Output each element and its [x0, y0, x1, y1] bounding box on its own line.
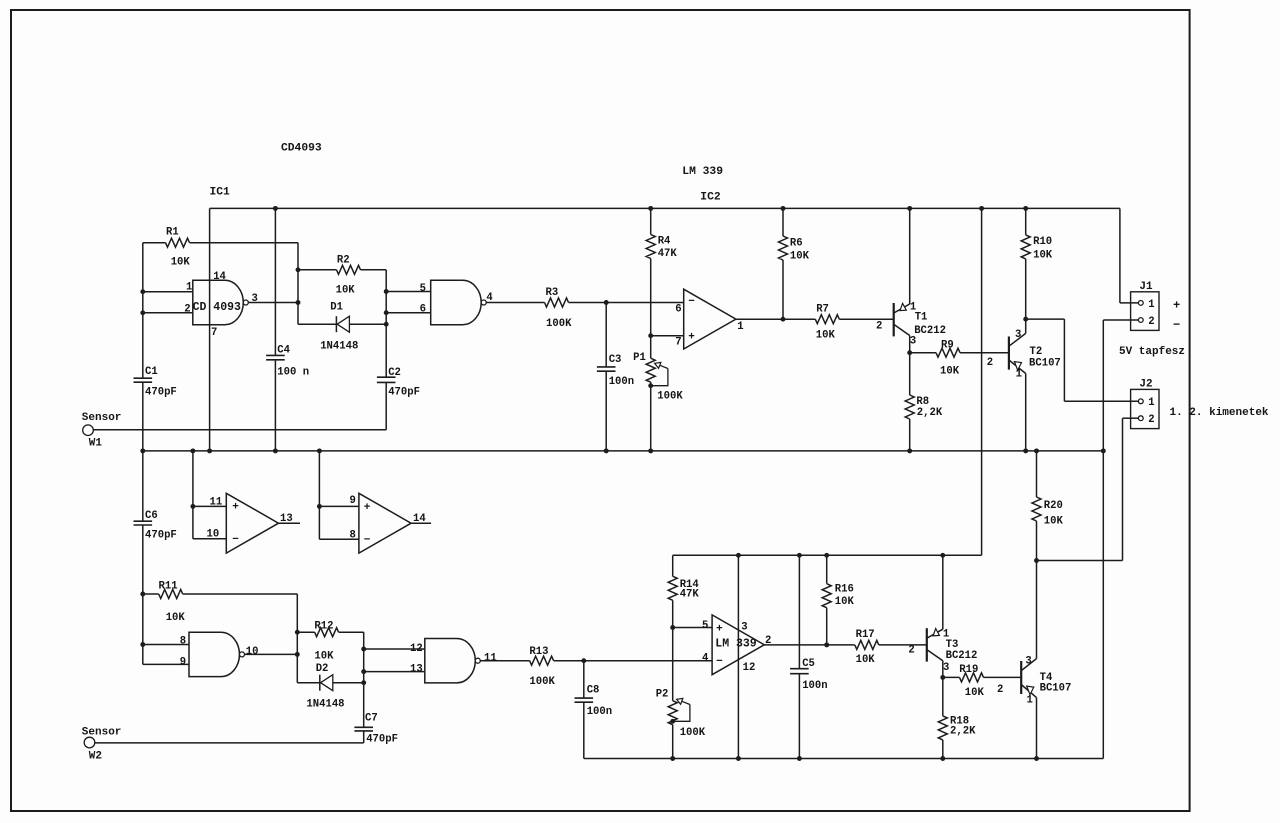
svg-text:10K: 10K	[1033, 249, 1053, 261]
svg-text:R4: R4	[658, 236, 671, 248]
svg-text:2,2K: 2,2K	[950, 726, 976, 738]
svg-text:R9: R9	[941, 340, 954, 352]
svg-text:470pF: 470pF	[145, 530, 177, 542]
svg-text:D2: D2	[316, 663, 329, 675]
svg-text:BC107: BC107	[1040, 683, 1072, 695]
svg-text:C2: C2	[388, 367, 401, 379]
svg-text:10K: 10K	[790, 251, 810, 263]
svg-text:C6: C6	[145, 510, 158, 522]
svg-text:470pF: 470pF	[366, 733, 398, 745]
svg-text:2: 2	[908, 645, 914, 657]
svg-text:D1: D1	[330, 301, 343, 313]
svg-text:1: 1	[186, 282, 192, 294]
svg-text:J2: J2	[1139, 379, 1152, 391]
svg-text:10K: 10K	[336, 285, 356, 297]
svg-text:14: 14	[213, 271, 226, 283]
svg-text:C8: C8	[587, 684, 600, 696]
svg-text:IC1: IC1	[210, 187, 231, 199]
svg-text:−: −	[1173, 318, 1180, 332]
svg-text:R13: R13	[529, 646, 548, 658]
svg-text:R1: R1	[166, 226, 179, 238]
svg-text:11: 11	[210, 497, 223, 509]
svg-text:+: +	[232, 502, 239, 514]
svg-text:47K: 47K	[680, 589, 700, 601]
svg-text:100n: 100n	[587, 706, 612, 718]
svg-text:T1: T1	[915, 312, 928, 324]
svg-text:T2: T2	[1030, 346, 1043, 358]
svg-text:R11: R11	[159, 581, 178, 593]
svg-text:3: 3	[1015, 329, 1021, 341]
svg-text:Sensor: Sensor	[82, 726, 122, 738]
svg-text:LM 339: LM 339	[682, 166, 723, 178]
svg-text:100K: 100K	[529, 676, 555, 688]
svg-text:100n: 100n	[802, 680, 827, 692]
svg-text:R2: R2	[337, 255, 350, 267]
svg-text:100n: 100n	[609, 376, 634, 388]
svg-text:4: 4	[702, 653, 709, 665]
svg-text:C7: C7	[365, 713, 378, 725]
svg-text:100 n: 100 n	[277, 367, 309, 379]
svg-text:9: 9	[350, 495, 356, 507]
svg-text:C4: C4	[277, 344, 290, 356]
svg-text:P2: P2	[656, 689, 669, 701]
svg-text:3: 3	[252, 293, 258, 305]
svg-text:C3: C3	[609, 354, 622, 366]
svg-text:2: 2	[997, 684, 1003, 696]
svg-text:2: 2	[987, 357, 993, 369]
svg-text:6: 6	[420, 304, 426, 316]
svg-text:+: +	[1173, 299, 1180, 313]
svg-text:−: −	[688, 296, 695, 308]
svg-text:CD 4093: CD 4093	[193, 301, 241, 314]
svg-text:R16: R16	[835, 584, 854, 596]
svg-text:1. 2. kimenetek: 1. 2. kimenetek	[1170, 407, 1269, 419]
svg-text:3: 3	[910, 336, 916, 348]
svg-text:CD4093: CD4093	[281, 142, 322, 154]
svg-text:10K: 10K	[835, 596, 855, 608]
svg-text:R17: R17	[856, 629, 875, 641]
svg-text:8: 8	[350, 530, 356, 542]
svg-text:100K: 100K	[657, 391, 683, 403]
svg-text:100K: 100K	[546, 318, 572, 330]
svg-text:1N4148: 1N4148	[320, 341, 358, 353]
svg-text:R12: R12	[314, 621, 333, 633]
svg-text:2: 2	[1148, 414, 1154, 426]
svg-text:470pF: 470pF	[388, 387, 420, 399]
svg-text:−: −	[716, 656, 723, 668]
svg-text:C1: C1	[145, 366, 158, 378]
svg-text:W2: W2	[89, 751, 102, 763]
svg-text:14: 14	[413, 513, 426, 525]
svg-text:47K: 47K	[658, 248, 678, 260]
svg-text:10: 10	[207, 529, 220, 541]
svg-text:8: 8	[180, 636, 186, 648]
svg-text:J1: J1	[1139, 281, 1153, 293]
svg-text:1: 1	[1148, 299, 1154, 311]
svg-text:Sensor: Sensor	[82, 412, 122, 424]
svg-text:10K: 10K	[965, 687, 985, 699]
svg-text:10K: 10K	[166, 612, 186, 624]
svg-text:9: 9	[180, 656, 186, 668]
svg-text:5: 5	[702, 620, 708, 632]
svg-text:2: 2	[184, 304, 190, 316]
svg-text:10K: 10K	[171, 257, 191, 269]
svg-text:12: 12	[743, 662, 756, 674]
svg-text:1: 1	[1148, 397, 1154, 409]
svg-text:11: 11	[484, 653, 497, 665]
svg-text:1N4148: 1N4148	[306, 699, 344, 711]
svg-text:10K: 10K	[940, 366, 960, 378]
svg-text:10K: 10K	[314, 650, 334, 662]
svg-text:10K: 10K	[816, 330, 836, 342]
svg-text:BC107: BC107	[1029, 357, 1061, 369]
svg-text:6: 6	[675, 303, 681, 315]
svg-text:13: 13	[410, 664, 423, 676]
svg-text:1: 1	[737, 321, 743, 333]
svg-text:3: 3	[943, 662, 949, 674]
svg-text:BC212: BC212	[914, 325, 946, 337]
svg-text:−: −	[364, 534, 371, 546]
svg-text:7: 7	[675, 336, 681, 348]
svg-text:IC2: IC2	[700, 192, 721, 204]
svg-text:R3: R3	[546, 287, 559, 299]
svg-text:C5: C5	[802, 658, 815, 670]
svg-text:+: +	[364, 502, 371, 514]
svg-text:4: 4	[486, 292, 493, 304]
svg-text:100K: 100K	[680, 727, 706, 739]
svg-text:R10: R10	[1033, 236, 1052, 248]
svg-text:R19: R19	[959, 664, 978, 676]
svg-text:10: 10	[246, 646, 259, 658]
svg-text:10K: 10K	[1044, 516, 1064, 528]
svg-text:2: 2	[765, 635, 771, 647]
svg-text:2,2K: 2,2K	[917, 407, 943, 419]
svg-text:1: 1	[1027, 694, 1033, 706]
svg-text:R20: R20	[1044, 500, 1063, 512]
svg-text:+: +	[716, 623, 723, 635]
svg-text:+: +	[688, 331, 695, 343]
svg-text:P1: P1	[633, 352, 646, 364]
svg-text:5: 5	[420, 283, 426, 295]
svg-text:LM 339: LM 339	[715, 637, 757, 650]
svg-text:10K: 10K	[856, 654, 876, 666]
svg-text:1: 1	[1016, 368, 1022, 380]
svg-text:3: 3	[1025, 655, 1031, 667]
svg-text:R6: R6	[790, 237, 803, 249]
svg-text:2: 2	[1148, 316, 1154, 328]
svg-text:W1: W1	[89, 438, 103, 450]
svg-text:7: 7	[211, 327, 217, 339]
svg-text:BC212: BC212	[946, 650, 978, 662]
svg-text:5V tapfesz: 5V tapfesz	[1119, 346, 1185, 358]
svg-text:R7: R7	[816, 304, 829, 316]
svg-text:470pF: 470pF	[145, 386, 177, 398]
svg-text:−: −	[232, 534, 239, 546]
svg-text:13: 13	[280, 513, 293, 525]
svg-text:3: 3	[741, 621, 747, 633]
svg-text:12: 12	[410, 643, 423, 655]
svg-text:2: 2	[876, 321, 882, 333]
